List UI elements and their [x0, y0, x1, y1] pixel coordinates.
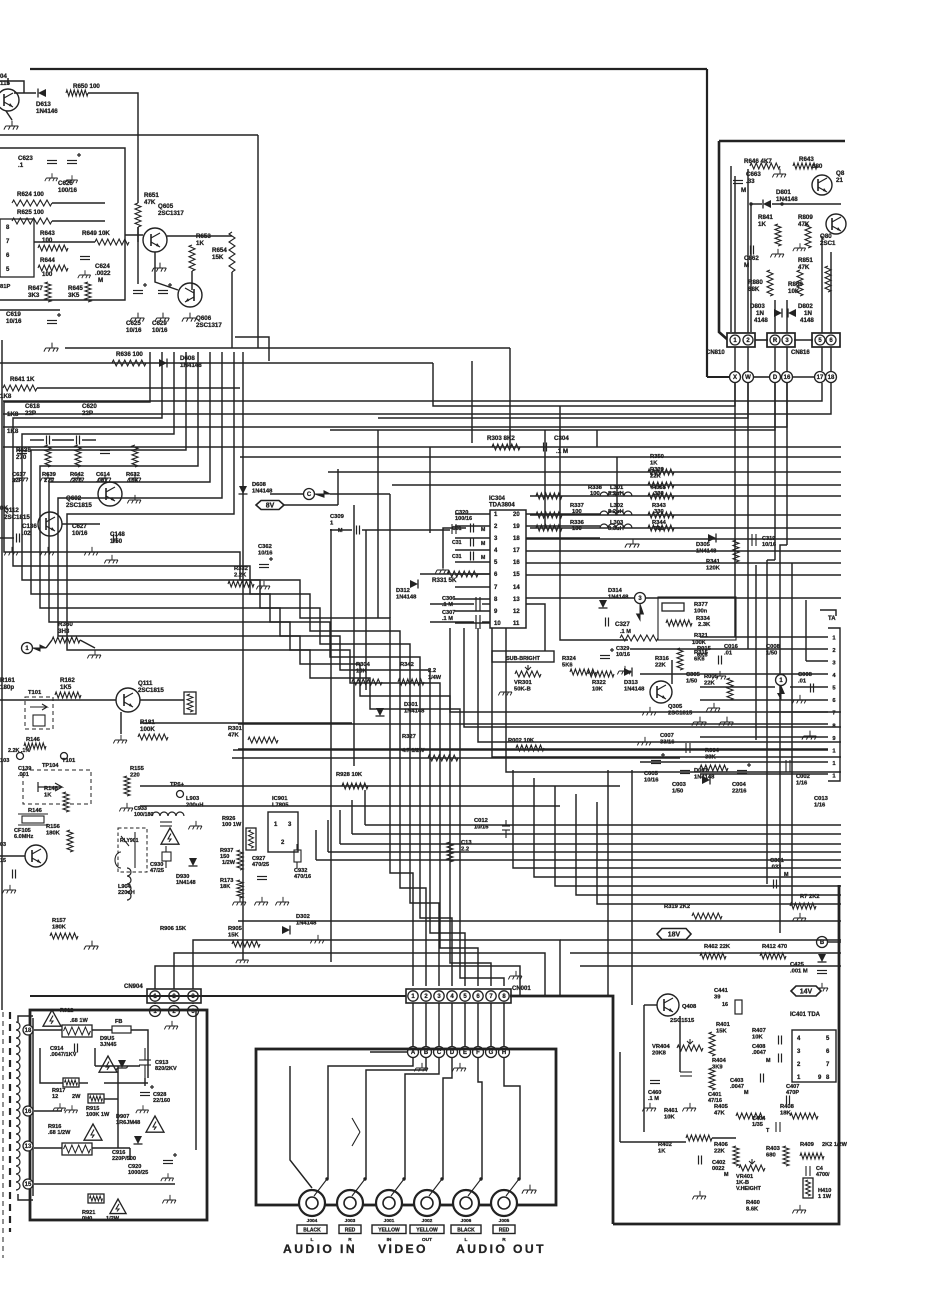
resistor R157 [50, 933, 78, 939]
wire from node X down [734, 383, 736, 637]
junction jack J003 [363, 1177, 366, 1180]
svg-text:M: M [481, 527, 485, 533]
svg-text:1/50: 1/50 [110, 538, 123, 545]
wire [240, 347, 510, 349]
wire zener row [95, 1065, 140, 1067]
svg-text:1N4148: 1N4148 [296, 920, 317, 926]
svg-text:.01: .01 [798, 678, 807, 684]
wire staircase bundle A line 4 [31, 352, 452, 986]
svg-text:J001: J001 [384, 1218, 395, 1224]
svg-text:03: 03 [0, 842, 6, 848]
node D jack [447, 1047, 458, 1058]
svg-text:YELLOW: YELLOW [416, 1228, 438, 1234]
node C jack [434, 1047, 445, 1058]
ground [188, 821, 202, 830]
wire [18, 1194, 33, 1200]
svg-text:2SC1515: 2SC1515 [670, 1018, 695, 1024]
svg-text:10/16: 10/16 [126, 327, 142, 334]
resistor R341 [733, 540, 739, 562]
wire [52, 202, 105, 204]
wire [174, 953, 545, 1004]
label Q80 [820, 233, 836, 247]
diode D930 [189, 858, 198, 866]
resistor R334 [666, 620, 692, 626]
svg-text:10/16: 10/16 [152, 327, 168, 334]
label R860 [788, 281, 803, 295]
svg-text:100K: 100K [140, 726, 155, 733]
label R880 [748, 279, 763, 293]
ground [814, 983, 828, 992]
svg-text:.001 M: .001 M [790, 968, 808, 974]
av outer border [510, 885, 839, 1224]
wire [794, 339, 813, 341]
resistor R926 [246, 828, 256, 850]
label D312 [396, 588, 417, 600]
label C933 [134, 806, 154, 818]
resistor H410 [803, 1178, 813, 1198]
ground [97, 473, 111, 482]
wire [370, 1051, 407, 1053]
svg-text:M: M [98, 277, 103, 284]
svg-text:10/16: 10/16 [6, 318, 22, 325]
diode D802 [788, 309, 796, 318]
capacitor C618c [47, 436, 50, 445]
transistor Q111 [116, 688, 140, 712]
capacitor C316 [471, 538, 474, 547]
wire left edge of sub-board block [719, 141, 728, 340]
svg-text:R409: R409 [800, 1142, 815, 1148]
wire TA pin 12 stub [700, 773, 828, 775]
ground [792, 1205, 806, 1214]
junction jack J005 [517, 1177, 520, 1180]
node 3 [635, 593, 646, 604]
svg-text:16: 16 [25, 1109, 32, 1115]
svg-text:J005: J005 [499, 1218, 510, 1224]
connector TA bracket [828, 628, 840, 781]
svg-text:M: M [338, 528, 343, 534]
capacitor C406 [779, 1036, 782, 1045]
wire [92, 1147, 130, 1149]
label R851 [798, 257, 813, 271]
wire top edge of sub-board block [719, 140, 845, 143]
svg-text:R625 100: R625 100 [17, 209, 44, 216]
svg-text:CF105: CF105 [14, 828, 31, 834]
svg-text:X: X [733, 375, 737, 381]
svg-text:C31: C31 [452, 540, 462, 546]
capacitor C362 [259, 557, 273, 568]
capacitor C928 [140, 1085, 154, 1096]
svg-text:1K: 1K [758, 221, 766, 228]
svg-text:T101: T101 [28, 690, 42, 696]
svg-text:820/2KV: 820/2KV [155, 1066, 177, 1072]
wire [365, 530, 367, 690]
connector CN816 pin 5 [815, 335, 825, 345]
svg-text:18: 18 [828, 375, 835, 381]
svg-text:1N4148: 1N4148 [624, 686, 645, 692]
svg-text:G: G [489, 1050, 494, 1056]
wire [766, 560, 768, 884]
wire C914 loop [40, 1048, 63, 1083]
wire bus to pin 18 [3, 383, 831, 414]
resistor R155 [124, 776, 130, 796]
ground [712, 671, 726, 680]
wire [131, 1030, 148, 1048]
svg-text:20K8: 20K8 [652, 1050, 667, 1056]
label R005 [704, 674, 719, 686]
wire [195, 1011, 197, 1150]
label C914 [50, 1046, 77, 1058]
wire [509, 348, 511, 447]
wire bus [352, 833, 841, 835]
svg-text:D9U5: D9U5 [100, 1036, 114, 1042]
node 16 [782, 372, 793, 383]
resistor R406 [733, 1146, 739, 1166]
node E jack [460, 1047, 471, 1058]
svg-text:R649 10K: R649 10K [82, 230, 110, 237]
svg-text:T101: T101 [62, 758, 76, 764]
svg-text:1/35: 1/35 [752, 1122, 763, 1128]
svg-text:RED: RED [345, 1228, 356, 1234]
resistor R647 [45, 282, 51, 302]
resistor R921 [88, 1194, 104, 1203]
resistor R651 [135, 203, 141, 227]
ground [40, 473, 54, 482]
wire [791, 563, 793, 906]
svg-text:R937: R937 [220, 848, 233, 854]
ground [182, 313, 196, 322]
label C306 [442, 596, 455, 608]
resistor R332 [228, 581, 254, 587]
label R404 [712, 1058, 727, 1070]
node B jack [421, 1047, 432, 1058]
wire [235, 337, 269, 361]
svg-text:C916: C916 [112, 1150, 125, 1156]
svg-text:E: E [463, 1050, 467, 1056]
svg-text:R015: R015 [697, 646, 712, 652]
connector CN816 pin 3 [782, 335, 792, 345]
resistor R337 [536, 512, 562, 518]
svg-text:50K-B: 50K-B [514, 686, 531, 692]
label R651 [144, 192, 159, 206]
svg-text:C004: C004 [732, 782, 747, 788]
wire jog [767, 559, 775, 561]
wire bus R338 row [530, 495, 841, 497]
wire bus to node X [433, 363, 735, 406]
capacitor C619 [47, 313, 61, 324]
svg-text:R157: R157 [52, 918, 66, 924]
svg-text:CN816: CN816 [791, 350, 810, 356]
ground [2, 885, 16, 894]
resistor R336 [536, 525, 562, 531]
svg-text:.0047: .0047 [752, 1050, 766, 1056]
capacitor C913 [139, 1048, 151, 1078]
label C136 [22, 523, 37, 537]
svg-text:R407: R407 [752, 1028, 766, 1034]
svg-text:TP6+: TP6+ [170, 782, 185, 788]
label Q605 [158, 203, 184, 217]
wire bus to node D [330, 383, 775, 430]
svg-text:22K: 22K [714, 1148, 725, 1154]
svg-text:RED: RED [499, 1228, 510, 1234]
resistor R912 [62, 1025, 92, 1037]
svg-text:47K: 47K [714, 1110, 725, 1116]
wire [34, 1029, 62, 1031]
label C13 [461, 840, 472, 852]
connector CN904 pin 2 lower [169, 1006, 180, 1017]
capacitor C614 [100, 451, 110, 454]
wire [420, 573, 490, 575]
svg-text:1N: 1N [804, 310, 812, 317]
wire [560, 939, 841, 941]
svg-text:C139: C139 [18, 766, 31, 772]
svg-text:17: 17 [513, 548, 520, 554]
svg-text:1K5: 1K5 [60, 684, 72, 691]
label R926 [222, 816, 242, 828]
diode D613 [38, 89, 46, 98]
ic U601 pins [0, 219, 34, 277]
resistor R632 [132, 445, 138, 467]
ground [706, 703, 720, 712]
svg-text:4148: 4148 [800, 317, 814, 324]
wire IC304 pin 9 stub [455, 610, 490, 612]
capacitor C016 [719, 656, 722, 665]
ground [236, 955, 249, 963]
resistor R653 [189, 245, 195, 271]
wire bus ic pin 18 row [526, 538, 841, 540]
svg-text:C306: C306 [442, 596, 455, 602]
connector CN816 pin 6 [826, 335, 836, 345]
connector CN904 pin 3 [188, 991, 198, 1001]
svg-text:10/16: 10/16 [616, 652, 630, 658]
wire Q111 base [0, 699, 116, 701]
label C932 [294, 868, 311, 880]
wire staircase bundle A line 7 [58, 352, 491, 986]
resistor R650 [66, 90, 88, 96]
svg-text:C304: C304 [554, 435, 569, 442]
connector CN904 body [147, 989, 201, 1003]
warning triangle [110, 1199, 126, 1214]
resistor R643 [38, 245, 68, 251]
svg-text:C31: C31 [452, 526, 462, 532]
ground [256, 581, 270, 590]
label R341 [706, 559, 721, 571]
wire [144, 1078, 146, 1086]
label R004 [705, 748, 720, 760]
label R161 [0, 677, 15, 691]
diode D803 [774, 309, 782, 318]
wire CN001 letter to jack 2 [366, 1058, 426, 1179]
svg-text:15: 15 [513, 572, 520, 578]
label C623 [18, 155, 33, 169]
connector CN001 pin 6 [473, 991, 483, 1001]
svg-text:100/180: 100/180 [134, 812, 154, 818]
wire [34, 1147, 62, 1149]
label YELLOW J002 [410, 1225, 444, 1234]
connector CN810 pin 2 [743, 335, 753, 345]
label R342 [400, 662, 414, 668]
svg-text:100/16: 100/16 [58, 187, 77, 194]
label R015 [697, 646, 712, 658]
resistor R841 [775, 224, 781, 246]
resistor R639 [45, 445, 51, 467]
label R647 [28, 285, 43, 299]
svg-text:.1: .1 [18, 162, 24, 169]
label C620 [82, 403, 97, 417]
svg-text:R156: R156 [46, 824, 61, 830]
svg-text:C407: C407 [786, 1084, 799, 1090]
ground [53, 1103, 66, 1111]
wire right border of upper area [706, 69, 708, 377]
wire IC304 pin 1 stub [455, 513, 490, 515]
node X [730, 372, 741, 383]
label R327 [402, 734, 416, 740]
transistor Q112 [38, 512, 62, 536]
svg-text:D305: D305 [696, 542, 711, 548]
svg-text:22K: 22K [655, 662, 666, 668]
wire [644, 1004, 657, 1006]
wire [353, 505, 355, 766]
wire IC304 pin 20 stub [526, 513, 600, 515]
label R917 [52, 1088, 65, 1100]
wire bus ic pin 14 row [526, 597, 841, 599]
wire [104, 1082, 148, 1084]
wire bus R303 row [3, 446, 841, 448]
wire IC304 pin 19 stub [526, 525, 600, 527]
svg-text:100: 100 [42, 271, 53, 278]
wire [755, 339, 768, 341]
label C407 [786, 1084, 799, 1096]
label R301 [228, 726, 243, 738]
svg-text:D: D [450, 1050, 455, 1056]
resistor R644 [38, 265, 68, 271]
svg-text:3K9: 3K9 [712, 1064, 723, 1070]
capacitor C008 [811, 684, 814, 693]
label Q112 [4, 507, 30, 521]
svg-text:47/25: 47/25 [150, 868, 164, 874]
connector CN810 body [727, 333, 755, 347]
svg-text:D001: D001 [694, 768, 709, 774]
inductor L301 [600, 492, 632, 496]
wire [559, 406, 561, 570]
label R304 [356, 662, 371, 674]
svg-text:R146: R146 [26, 737, 41, 743]
svg-text:R301: R301 [228, 726, 243, 732]
capacitor C408 [779, 1054, 782, 1063]
wire [828, 941, 841, 943]
node 17 [815, 372, 826, 383]
node 1 [22, 643, 33, 654]
resistor R914 [63, 1078, 79, 1087]
label C927 [252, 856, 269, 868]
wire [6, 111, 12, 120]
resistor R851v [825, 266, 831, 292]
svg-text:R912: R912 [60, 1008, 73, 1014]
ic IC401 [792, 1030, 836, 1082]
svg-text:15: 15 [0, 858, 6, 864]
rca jack J005 [491, 1190, 517, 1216]
flyback pin 16 [23, 1106, 33, 1116]
capacitor C914 [75, 1044, 78, 1053]
resistor R916 [62, 1143, 92, 1155]
resistor R13 [447, 842, 453, 862]
label R332 [234, 566, 248, 578]
capacitor C40x [680, 1072, 692, 1076]
resistor R342 [398, 679, 424, 685]
svg-text:100: 100 [590, 491, 600, 497]
resistor R860 [797, 270, 803, 296]
wire TA pin 2 stub [630, 648, 828, 650]
svg-text:M: M [766, 1058, 771, 1064]
ground [44, 343, 58, 352]
connector CN001 pin 3 [434, 991, 444, 1001]
wire [284, 504, 338, 506]
wire pin16 row [34, 1110, 62, 1112]
svg-text:VR401: VR401 [736, 1174, 753, 1180]
av jack box border [256, 1049, 556, 1205]
label R916 [48, 1124, 71, 1136]
wire [774, 300, 776, 334]
ground [254, 897, 268, 906]
ground [802, 731, 816, 740]
svg-text:VR404: VR404 [652, 1044, 671, 1050]
net label SUB-BRIGHT [492, 651, 554, 662]
ground [793, 243, 806, 251]
test point TP104 [61, 753, 68, 760]
wire left edge [1, 340, 3, 1010]
ground [14, 473, 28, 482]
capacitor C007 [686, 743, 690, 753]
svg-text:C002: C002 [796, 774, 810, 780]
svg-text:C913: C913 [155, 1060, 168, 1066]
flyback pin 18 [23, 1025, 33, 1035]
label D907 [116, 1114, 140, 1126]
wire [616, 457, 618, 515]
svg-text:15K: 15K [716, 1028, 727, 1034]
capacitor C136 [17, 534, 20, 543]
svg-text:3K5: 3K5 [68, 292, 80, 299]
diode D411 [818, 954, 827, 962]
label R405 [714, 1104, 729, 1116]
svg-text:R332: R332 [234, 566, 248, 572]
wire [14, 92, 36, 94]
svg-text:R926: R926 [222, 816, 235, 822]
capacitor C327 [606, 618, 609, 627]
junction jack J002 [440, 1177, 443, 1180]
wire TA pin 1 stub [700, 636, 828, 638]
wire CN001 letter to jack 1 [328, 1058, 413, 1179]
svg-text:R377: R377 [694, 602, 708, 608]
svg-text:18: 18 [513, 536, 520, 542]
warning triangle [43, 1010, 61, 1026]
net label net 18V [657, 929, 691, 940]
label D613 [36, 101, 58, 115]
svg-text:.1 M: .1 M [556, 448, 568, 455]
svg-text:2: 2 [832, 648, 835, 654]
svg-text:1/50: 1/50 [672, 788, 683, 794]
capacitor C309 [357, 526, 360, 535]
svg-text:M: M [481, 541, 485, 547]
svg-text:TDA3804: TDA3804 [489, 503, 515, 509]
wire [270, 493, 303, 495]
resistor R403 [783, 1146, 789, 1166]
svg-text:D802: D802 [798, 303, 813, 310]
label C441 [714, 988, 729, 1000]
capacitor C407 [787, 1096, 790, 1105]
svg-text:220uH: 220uH [118, 890, 135, 896]
wire [526, 604, 545, 660]
svg-text:L903: L903 [186, 796, 200, 802]
wire staircase bundle A line 8 [67, 352, 504, 986]
